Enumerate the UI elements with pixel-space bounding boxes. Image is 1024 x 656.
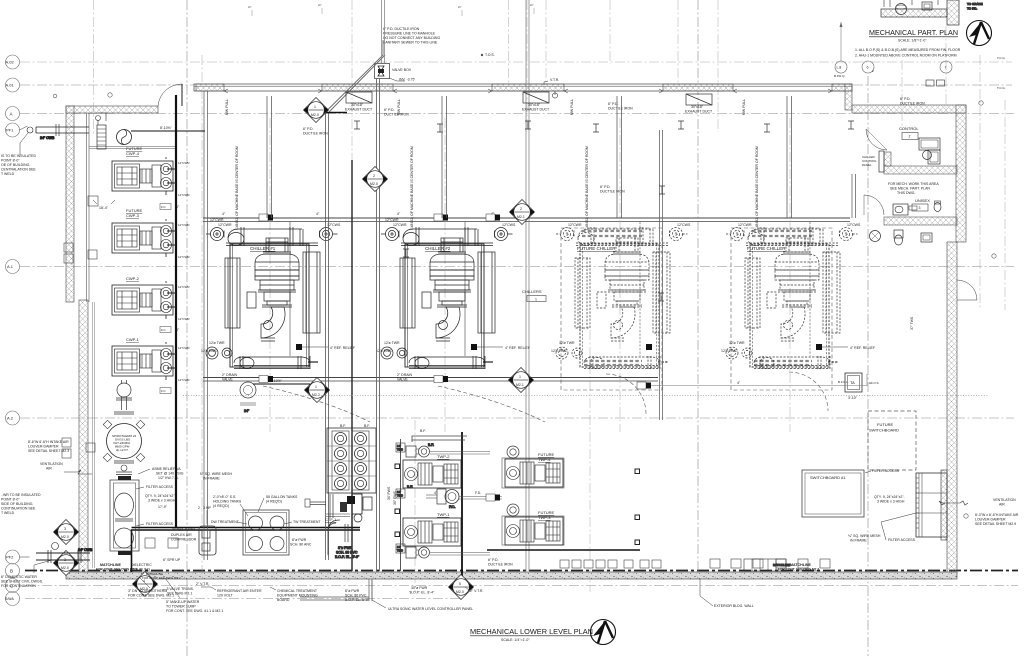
chiller CH-2 label xyxy=(425,246,451,251)
pump CWP-1 xyxy=(112,342,173,380)
svg-text:7: 7 xyxy=(945,66,947,70)
chiller CH-2 xyxy=(381,222,513,369)
horizontal grid line A.02 xyxy=(20,61,1012,63)
grid bubble L.8 xyxy=(834,22,847,78)
top wall step at right xyxy=(845,84,852,110)
right wall upper xyxy=(956,105,966,242)
svg-text:8"ø FWR: 8"ø FWR xyxy=(292,538,307,542)
future switchboard xyxy=(868,411,916,470)
svg-text:EXTERIOR BLDG. WALL: EXTERIOR BLDG. WALL xyxy=(714,604,754,608)
svg-text:6: 6 xyxy=(867,66,869,70)
svg-text:VENTILATION: VENTILATION xyxy=(993,498,1016,502)
filter annotations xyxy=(131,467,232,572)
svg-text:TWP-1: TWP-1 xyxy=(437,512,450,517)
keyed note diamond 3a/M2.0 xyxy=(54,551,79,576)
NW room partition line xyxy=(89,147,176,149)
svg-text:T.C.G.: T.C.G. xyxy=(997,56,1006,60)
future pump TWP-4 xyxy=(502,446,564,488)
T.O.S. tag xyxy=(481,53,495,57)
control room desk xyxy=(919,138,940,164)
chiller bay 2 annotations xyxy=(376,212,530,382)
exhaust duct 3 xyxy=(685,94,713,114)
wire mesh squares left xyxy=(395,464,400,537)
svg-text:DUCTILE IRON: DUCTILE IRON xyxy=(900,102,925,106)
TWP suction header xyxy=(412,429,467,442)
svg-text:DUCTILE IRON: DUCTILE IRON xyxy=(303,132,328,136)
top wall right section xyxy=(852,105,966,113)
grid bubble B xyxy=(6,564,20,578)
heavy pipe run bottom-left xyxy=(132,528,361,573)
svg-text:14": 14" xyxy=(397,545,401,549)
svg-text:MECHANICAL LOWER LEVEL PLAN: MECHANICAL LOWER LEVEL PLAN xyxy=(470,627,593,636)
dim 18-4 xyxy=(93,200,115,210)
future chiller CH-3 xyxy=(556,222,688,369)
svg-text:CWP-1: CWP-1 xyxy=(126,337,140,342)
svg-text:¾" SQ. WIRE MESH: ¾" SQ. WIRE MESH xyxy=(848,534,881,538)
vertical grid line x868 xyxy=(867,76,869,656)
svg-text:A.1: A.1 xyxy=(7,264,14,269)
svg-text:DUCTILE IRON: DUCTILE IRON xyxy=(608,107,633,111)
svg-text:PANEL: PANEL xyxy=(862,163,872,167)
svg-text:F.D.: F.D. xyxy=(475,491,481,495)
pump CWP-1 label xyxy=(126,337,140,342)
svg-text:T.C.G.: T.C.G. xyxy=(997,86,1006,90)
vertical grid line x678 xyxy=(677,0,679,86)
svg-text:ℂ#8452; OF MACHINE BASE IS CEN: ℂ#8452; OF MACHINE BASE IS CENTER OF ROO… xyxy=(755,146,759,230)
svg-text:M2.0: M2.0 xyxy=(61,566,69,570)
svg-text:FUTURE CHILLER: FUTURE CHILLER xyxy=(747,246,786,251)
svg-text:FOR MECH. WORK THIS AREA: FOR MECH. WORK THIS AREA xyxy=(888,182,939,186)
future chiller CH-3 envelope xyxy=(561,228,662,390)
left wall inner lines lower xyxy=(93,302,95,568)
svg-text:6" P.D.: 6" P.D. xyxy=(384,108,395,112)
svg-text:12"CWS: 12"CWS xyxy=(677,223,691,227)
svg-text:SCALE: 1/8"=1'-0": SCALE: 1/8"=1'-0" xyxy=(898,39,927,43)
svg-text:14": 14" xyxy=(397,444,401,448)
grid bubble PF2 xyxy=(6,550,30,564)
svg-text:8'-6"W 6'-6"H INTAKE AIR: 8'-6"W 6'-6"H INTAKE AIR xyxy=(28,440,69,444)
svg-text:12"CWR: 12"CWR xyxy=(218,223,232,227)
svg-text:30"x18": 30"x18" xyxy=(528,103,541,107)
svg-text:IN FRAME: IN FRAME xyxy=(850,539,867,543)
svg-text:12"CWR: 12"CWR xyxy=(178,193,190,197)
svg-text:INV. -3.75': INV. -3.75' xyxy=(399,78,415,82)
svg-text:55 GALLON TANKS: 55 GALLON TANKS xyxy=(266,495,298,499)
svg-text:DO NOT CONNECT ANY BUILDING: DO NOT CONNECT ANY BUILDING xyxy=(383,36,440,40)
vertical grid line x415 xyxy=(414,420,416,592)
24 CWB pipe at PF2 xyxy=(36,543,93,564)
bottom annotation: chemical treatment xyxy=(270,587,318,602)
control room label xyxy=(899,126,919,140)
svg-text:2: 2 xyxy=(373,174,375,178)
svg-text:T.O.S.: T.O.S. xyxy=(485,53,495,57)
svg-text:5" MAKE-UP WATER: 5" MAKE-UP WATER xyxy=(166,600,200,604)
svg-text:QTY. 9, 24"x24"x2",: QTY. 9, 24"x24"x2", xyxy=(145,494,176,498)
svg-text:MW PULL: MW PULL xyxy=(225,99,229,115)
svg-text:F.C.: F.C. xyxy=(161,328,167,332)
svg-text:B.F.: B.F. xyxy=(420,429,426,433)
inline pump between TWP-2 and TWP-1 xyxy=(396,485,459,509)
sewer diagonal pipe xyxy=(324,40,385,113)
lower level plan title xyxy=(470,627,593,642)
svg-text:SWITCHBOARD #1: SWITCHBOARD #1 xyxy=(810,475,846,480)
horizontal grid line A.1 xyxy=(20,266,1014,268)
holding tank labels xyxy=(211,495,321,524)
svg-text:ℂ#8452; OF MACHINE BASE IS CEN: ℂ#8452; OF MACHINE BASE IS CENTER OF ROO… xyxy=(585,146,589,230)
svg-text:BOARD: BOARD xyxy=(277,598,290,602)
svg-text:CHILLERS: CHILLERS xyxy=(522,289,542,294)
svg-text:8"ø FWR: 8"ø FWR xyxy=(345,589,360,593)
svg-text:2 - 3 HP: 2 - 3 HP xyxy=(198,506,212,510)
svg-text:SIDE OF BUILDING.: SIDE OF BUILDING. xyxy=(1,502,34,506)
svg-text:PF2: PF2 xyxy=(6,555,14,560)
svg-text:T WELD: T WELD xyxy=(1,172,15,176)
svg-text:120 VOLT: 120 VOLT xyxy=(217,594,234,598)
pipe riser x378 xyxy=(377,79,380,571)
bottom-right corner door xyxy=(957,280,977,300)
water heater xyxy=(870,231,881,242)
equipment removal arc bay 3 xyxy=(606,374,646,414)
svg-text:SEE SHEET CIVIL DWGS.: SEE SHEET CIVIL DWGS. xyxy=(1,580,43,584)
horizontal grid line A xyxy=(20,113,1014,115)
svg-text:SEE MECH. PART. PLAN: SEE MECH. PART. PLAN xyxy=(890,187,930,191)
bottom annotation: 8 FWR pvc xyxy=(345,589,370,602)
CHILLERS tag xyxy=(522,289,546,302)
svg-text:B.O.P. EL. 8'-0": B.O.P. EL. 8'-0" xyxy=(335,555,360,559)
grid bubble A.1 xyxy=(6,260,20,274)
F.C. tags pump column xyxy=(160,204,171,394)
svg-text:AIR: AIR xyxy=(999,503,1005,507)
CTF-1 tower cells xyxy=(327,424,376,493)
svg-text:TWC: TWC xyxy=(397,494,403,498)
top edge dim marks xyxy=(248,3,534,16)
F.O.S. pipe right xyxy=(637,374,880,389)
chiller CH-1 xyxy=(206,222,338,369)
svg-text:12'ø TWR: 12'ø TWR xyxy=(209,341,225,345)
svg-text:8'-0"W x 6'-6"H INTAKE AIR: 8'-0"W x 6'-6"H INTAKE AIR xyxy=(975,513,1019,517)
chiller control panel xyxy=(862,151,884,172)
svg-text:B: B xyxy=(10,568,13,573)
CTF-1 discharge piping xyxy=(328,520,360,559)
svg-text:A: A xyxy=(10,111,13,116)
chilled water supply header xyxy=(203,218,850,222)
svg-text:30"ø FWR: 30"ø FWR xyxy=(411,586,428,590)
bottom annotation: 2" V.T.R. left xyxy=(196,582,209,586)
B.F.C.L. dotted line xyxy=(183,380,988,396)
bottom annotation: 2" V.T.R. right xyxy=(465,587,483,593)
svg-text:VALVE: VALVE xyxy=(222,378,233,382)
svg-text:1/2" KW-7.2L: 1/2" KW-7.2L xyxy=(158,476,179,480)
unisex sink counter xyxy=(893,204,917,215)
svg-text:12"CWR: 12"CWR xyxy=(178,223,190,227)
vertical grid line x610 xyxy=(609,0,611,64)
grid bubble 7 xyxy=(940,61,952,73)
pump TWP-2 xyxy=(403,460,461,488)
chiller bay 4 annotations xyxy=(721,223,875,353)
keyed note diamond 2/M2.0 xyxy=(363,167,388,192)
svg-text:6" P.D. DUCTILE IRON: 6" P.D. DUCTILE IRON xyxy=(383,27,420,31)
grid bubble A.01 xyxy=(6,78,20,92)
svg-text:12'ø EWS: 12'ø EWS xyxy=(376,349,392,353)
svg-text:AIR: AIR xyxy=(46,467,52,471)
svg-text:6'-10½": 6'-10½" xyxy=(270,379,283,383)
spirotherm separator xyxy=(103,420,144,461)
svg-text:12'ø TWR: 12'ø TWR xyxy=(384,341,400,345)
svg-text:B.F.: B.F. xyxy=(407,485,413,489)
spirotherm riser pipe xyxy=(114,380,134,414)
svg-text:SCALE: 1/4"=1'-0": SCALE: 1/4"=1'-0" xyxy=(501,638,530,642)
left wall lower xyxy=(79,300,88,572)
pads row on bottom wall xyxy=(560,559,830,568)
horizontal grid line A.01 xyxy=(20,84,1012,86)
chiller CH-1 label xyxy=(250,246,276,251)
svg-text:12"CWR: 12"CWR xyxy=(178,378,190,382)
CTF-1 pump assembly xyxy=(325,494,372,522)
TA box xyxy=(845,373,862,400)
svg-text:ULTRA SONIC WATER LEVEL CONTRO: ULTRA SONIC WATER LEVEL CONTROLLER PANEL xyxy=(388,607,473,611)
svg-text:TWP-4: TWP-4 xyxy=(538,457,551,462)
svg-text:FUTURE: FUTURE xyxy=(877,422,894,427)
chiller bay 3 annotations xyxy=(551,223,691,353)
svg-text:SEE DETAIL SHEET M2.3: SEE DETAIL SHEET M2.3 xyxy=(28,449,69,453)
part plan equip above right wall xyxy=(926,80,945,86)
sanitary note xyxy=(383,27,440,45)
svg-text:A.02: A.02 xyxy=(6,60,15,65)
svg-text:EXHAUST DUCT: EXHAUST DUCT xyxy=(345,108,373,112)
V.T.R. vent xyxy=(544,78,559,98)
svg-text:5: 5 xyxy=(459,582,461,586)
svg-text:FOR CONTINUATION: FOR CONTINUATION xyxy=(1,584,36,588)
svg-text:A.01: A.01 xyxy=(6,83,15,88)
svg-text:UNISEX: UNISEX xyxy=(915,198,930,203)
svg-text:SEE DETAIL SHEET M2.9: SEE DETAIL SHEET M2.9 xyxy=(975,522,1016,526)
svg-text:TWC: TWC xyxy=(397,549,403,553)
svg-text:(4 REQ'D): (4 REQ'D) xyxy=(213,504,229,508)
bottom wall xyxy=(66,572,957,579)
equipment removal arc bay 2 xyxy=(438,386,545,422)
vertical grid line x590 xyxy=(589,330,591,592)
svg-text:LOUVER-DAMPER: LOUVER-DAMPER xyxy=(975,518,1006,522)
bottom annotation: 6" P.D. xyxy=(488,558,513,567)
pump CWP-2 label xyxy=(126,276,140,281)
T.C.G. right tags xyxy=(997,56,1006,90)
6" P.D. label top xyxy=(384,108,409,117)
holding tanks xyxy=(243,510,289,555)
svg-text:30"x18": 30"x18" xyxy=(351,103,364,107)
svg-text:⅛": ⅛" xyxy=(318,3,322,7)
svg-text:FILTER ACCESS: FILTER ACCESS xyxy=(146,485,174,489)
svg-text:DUCTILE IRON: DUCTILE IRON xyxy=(488,563,513,567)
svg-text:12"CWS: 12"CWS xyxy=(502,223,516,227)
svg-text:MATCHLINE: MATCHLINE xyxy=(790,563,811,567)
svg-text:SET @ 140 PSIG: SET @ 140 PSIG xyxy=(156,472,184,476)
control room west wall stub xyxy=(884,152,891,166)
left bottom annotation xyxy=(1,560,52,588)
svg-text:3'-10": 3'-10" xyxy=(848,396,858,400)
svg-text:1: 1 xyxy=(519,375,521,379)
svg-text:TWP-2: TWP-2 xyxy=(437,454,450,459)
svg-text:12"CWR: 12"CWR xyxy=(178,285,190,289)
entry door at top-left xyxy=(158,84,182,106)
svg-text:..WR TO BE INSULATED: ..WR TO BE INSULATED xyxy=(1,493,41,497)
chiller bay 1 annotations xyxy=(201,212,355,382)
svg-text:VALVE: VALVE xyxy=(397,378,408,382)
svg-text:EXHAUST DUCT: EXHAUST DUCT xyxy=(685,110,713,114)
svg-text:4" REF. RELIEF: 4" REF. RELIEF xyxy=(330,346,355,350)
future chiller CH-3 label xyxy=(577,246,616,251)
horizontal grid line A.2 xyxy=(20,417,1014,419)
svg-text:F.C.: F.C. xyxy=(161,389,167,393)
svg-text:DUPLEX AIR: DUPLEX AIR xyxy=(171,533,192,537)
svg-text:1: 1 xyxy=(315,385,317,389)
svg-text:F.O.: F.O. xyxy=(449,505,455,509)
control room south wall xyxy=(884,166,957,174)
future chiller CH-4 envelope xyxy=(731,228,832,390)
svg-text:12'ø EWS: 12'ø EWS xyxy=(201,349,217,353)
svg-text:DW TREATMENT: DW TREATMENT xyxy=(211,520,240,524)
svg-text:3: 3 xyxy=(919,206,921,210)
pump TWP-2 label xyxy=(437,454,450,459)
exhaust duct 1 xyxy=(345,92,373,112)
pump CWP-3 (future) xyxy=(112,219,173,257)
future pump TWP-3 xyxy=(502,504,564,545)
svg-text:12"CWR: 12"CWR xyxy=(210,218,224,222)
svg-text:(4 REQ'D): (4 REQ'D) xyxy=(266,500,282,504)
waterline note xyxy=(142,572,181,580)
part plan title xyxy=(869,28,958,43)
svg-text:TW TREATMENT: TW TREATMENT xyxy=(293,520,321,524)
grid bubble A xyxy=(6,107,20,121)
svg-text:MW PULL: MW PULL xyxy=(570,99,574,115)
svg-text:REFRIGERANT AIR ENTER: REFRIGERANT AIR ENTER xyxy=(217,589,262,593)
lower plan north arrow xyxy=(591,620,616,645)
svg-text:CHILLER #2: CHILLER #2 xyxy=(425,246,451,251)
ventilation air left xyxy=(40,462,92,474)
bottom annotation: ultra sonic xyxy=(372,580,473,611)
svg-text:M2.0: M2.0 xyxy=(311,113,319,117)
keyed note diamond 1/M2.0 xyxy=(304,98,329,123)
svg-text:IS TO BE INSULATED: IS TO BE INSULATED xyxy=(1,154,36,158)
svg-text:B.F.: B.F. xyxy=(364,424,370,428)
svg-text:MECHANICAL PART. PLAN: MECHANICAL PART. PLAN xyxy=(869,28,958,37)
svg-text:12"CWR: 12"CWR xyxy=(568,223,582,227)
dim line 6-102 xyxy=(253,379,310,384)
svg-text:FILTER ACCESS: FILTER ACCESS xyxy=(888,538,916,542)
svg-text:OE OF BUILDING.: OE OF BUILDING. xyxy=(1,163,30,167)
svg-text:CONTROL: CONTROL xyxy=(899,126,919,131)
ventilation air arrow right xyxy=(939,498,1019,526)
keyed note diamond 5/M2.0 xyxy=(449,575,474,600)
svg-text:V.T.R.: V.T.R. xyxy=(550,78,559,82)
svg-text:⅛": ⅛" xyxy=(248,5,252,9)
control room door xyxy=(866,129,887,150)
svg-text:TO F.D.: TO F.D. xyxy=(967,7,977,11)
bottom annotation: make-up water xyxy=(165,578,223,613)
vertical grid line x352 xyxy=(351,0,353,160)
future chiller CH-4 xyxy=(726,222,858,369)
pump CWP-4 (future) xyxy=(112,157,173,195)
24 CWB pipe at PF1 xyxy=(20,124,89,155)
svg-text:SANITARY SEWER TO THIS LINE: SANITARY SEWER TO THIS LINE xyxy=(383,41,438,45)
vertical grid line x698 xyxy=(697,0,699,575)
janitor fixtures below unisex xyxy=(894,230,932,245)
chiller bay centerline 3 xyxy=(585,118,620,432)
svg-text:2" DRAIN: 2" DRAIN xyxy=(222,373,238,377)
vertical grid line x94 xyxy=(93,0,95,136)
svg-text:12"CWR: 12"CWR xyxy=(393,223,407,227)
svg-text:M2.0: M2.0 xyxy=(456,590,464,594)
svg-text:B.P.E.Q.: B.P.E.Q. xyxy=(834,74,845,78)
future pump TWP-4 label xyxy=(538,452,555,462)
svg-text:B.F.: B.F. xyxy=(428,443,434,447)
future chiller CH-4 label xyxy=(747,246,786,251)
svg-text:3" DN TO SPIROTHERM: 3" DN TO SPIROTHERM xyxy=(128,589,167,593)
svg-text:6" DOMESTIC WATER: 6" DOMESTIC WATER xyxy=(1,575,37,579)
svg-text:TWP-3: TWP-3 xyxy=(538,515,551,520)
svg-text:F.C.: F.C. xyxy=(161,205,167,209)
spirotherm outlet flanges xyxy=(114,461,134,475)
svg-text:1: 1 xyxy=(314,105,316,109)
horizontal grid line S/WA xyxy=(25,598,462,600)
dim 8-10 top-left xyxy=(131,126,205,131)
svg-text:S/WA: S/WA xyxy=(5,597,14,601)
keyed note diamond 2/M2.1 xyxy=(510,200,535,225)
grid bubble A.2 xyxy=(6,411,20,425)
matchline text right xyxy=(778,563,819,572)
main vertical pipe riser x176 xyxy=(175,95,177,528)
svg-text:FOR CONT. SEE DWG MT.2: FOR CONT. SEE DWG MT.2 xyxy=(96,568,137,572)
svg-text:37' TWS: 37' TWS xyxy=(910,316,914,330)
svg-text:6" P.D.: 6" P.D. xyxy=(900,97,911,101)
pump TWP-1 xyxy=(403,518,461,546)
svg-text:6" P.D.: 6" P.D. xyxy=(600,185,611,189)
grid bubble S/WA xyxy=(5,592,20,606)
6" P.D. label bay4 xyxy=(900,97,925,106)
grid bubble A.02 xyxy=(6,55,20,69)
grid bubble C xyxy=(6,579,20,593)
P pump circle top-left xyxy=(117,130,132,145)
svg-text:VENTILATION: VENTILATION xyxy=(40,462,63,466)
future chiller CH-3 manifold bands xyxy=(582,231,642,365)
CWP header risers x204 xyxy=(204,91,208,560)
svg-text:MATCHLINE: MATCHLINE xyxy=(773,563,790,567)
pipe drop to future switchboard xyxy=(660,130,663,420)
valve box xyxy=(375,64,416,82)
wire mesh squares right xyxy=(635,469,640,545)
svg-text:12"CWS: 12"CWS xyxy=(847,223,861,227)
pump CWP-4 label xyxy=(126,146,143,156)
MW PULL rotated texts on wall xyxy=(225,99,914,500)
8 FWR label mid xyxy=(290,538,312,547)
CWP discharge stubs to riser xyxy=(167,169,176,368)
svg-text:MW PULL: MW PULL xyxy=(742,99,746,115)
bottom annotation: refrigerant xyxy=(201,587,262,598)
right wall lower xyxy=(947,242,957,574)
unisex door xyxy=(864,195,884,215)
chiller bay centerline 2 xyxy=(410,118,445,432)
keyed note diamond 1/M2.1 xyxy=(509,368,534,393)
future chiller CH-4 manifold bands xyxy=(752,231,812,365)
inline pump below TWP-1 xyxy=(396,544,430,558)
CWP riser stub labels xyxy=(178,161,190,382)
svg-text:18'-4": 18'-4" xyxy=(99,206,109,210)
grid bubble 6 xyxy=(862,61,874,73)
svg-text:LOUVER-DAMPER: LOUVER-DAMPER xyxy=(28,445,59,449)
svg-text:FILTER ACCESS: FILTER ACCESS xyxy=(872,469,900,473)
intake louver filter unit xyxy=(916,470,947,540)
horizontal grid line B (match line, heavy) xyxy=(25,570,1018,572)
pump CWP-2 xyxy=(112,281,173,319)
